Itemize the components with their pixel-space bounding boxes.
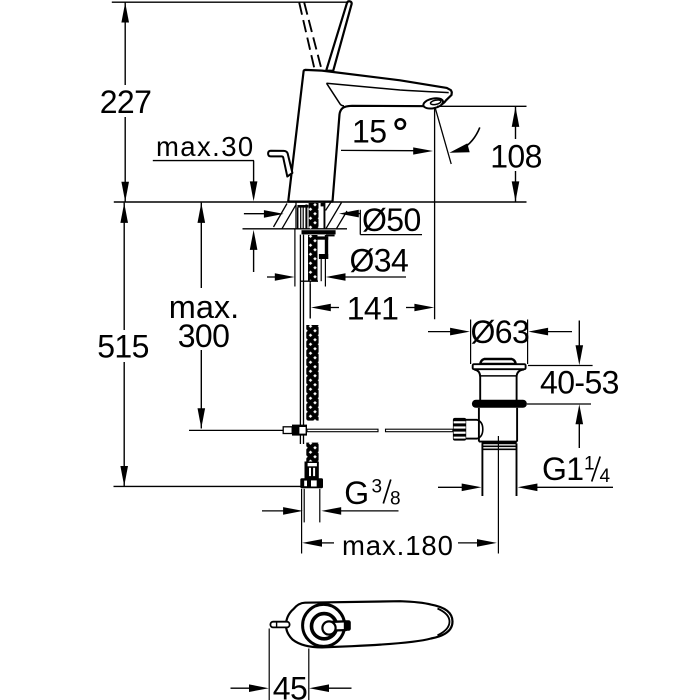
waste lower body (478, 408, 480, 442)
waste upper body (480, 375, 516, 377)
svg-text:40-53: 40-53 (540, 365, 619, 401)
svg-text:Ø34: Ø34 (350, 243, 409, 279)
waste tailpipe (481, 443, 483, 496)
waste tailpipe rings (482, 442, 517, 444)
dimension Ø34 (294, 230, 296, 287)
lever right end inner arc (438, 609, 450, 636)
hose nut G3/8 (300, 478, 323, 488)
dashed handle (alternate position) (299, 3, 314, 69)
hose connector ribbed (305, 462, 319, 479)
svg-text:G1: G1 (542, 451, 584, 487)
svg-text:515: 515 (97, 329, 149, 365)
top reference line (handle tip level) (112, 1, 349, 3)
spout inner diagonal (327, 83, 345, 106)
dimension 108 vertical line (515, 107, 517, 139)
shank hole edges (295, 203, 297, 229)
svg-text:max.180: max.180 (342, 530, 454, 561)
deck top line (114, 201, 527, 203)
mounting washer (302, 230, 336, 234)
svg-text:1: 1 (584, 454, 595, 475)
svg-text:max.30: max.30 (156, 131, 255, 162)
waste side port (466, 419, 478, 421)
svg-text:Ø50: Ø50 (362, 202, 421, 238)
spout outlet reference line (437, 105, 527, 107)
spout aerator (422, 97, 444, 111)
svg-text:141: 141 (347, 291, 399, 327)
spout inner top edge (327, 83, 449, 92)
waste knurled knob (453, 418, 466, 441)
dimension 45 extension lines (268, 629, 270, 700)
lever cap inner circle (322, 621, 335, 634)
rod tee fitting (283, 427, 292, 434)
lever stub (331, 621, 348, 630)
dimension 45 arrows (231, 687, 252, 689)
pop-up rod left segment (307, 429, 378, 432)
515 bottom reference line (114, 485, 303, 487)
deck cross-section bottom line (243, 228, 348, 230)
hose double line below deck (299, 235, 301, 444)
deck hatching (274, 204, 288, 228)
svg-text:G: G (344, 475, 368, 511)
braided hose lower section (306, 443, 318, 462)
max.300 bottom reference line (189, 429, 284, 431)
15 degree leader line with arrow (341, 149, 414, 151)
dimension max.180 (302, 539, 322, 547)
lever cap middle circle (312, 614, 337, 639)
waste O-ring (472, 400, 527, 408)
15 degree slant line (435, 108, 451, 165)
pop-up waste: Ø63 extension lines (470, 320, 472, 365)
lever cap outer circle (303, 604, 345, 646)
40-53 reference lines (528, 365, 593, 367)
dimension max.300 vertical line (200, 203, 202, 288)
max.180 extension line (301, 489, 303, 554)
mounting bracket (317, 236, 328, 239)
G3/8 extension lines (303, 489, 305, 523)
svg-text:Ø63: Ø63 (471, 314, 530, 350)
waste flange (473, 364, 526, 369)
threaded shank below deck (308, 235, 318, 282)
dimension G1 1/4 (438, 486, 464, 488)
dimension Ø63 arrows (428, 331, 452, 333)
svg-text:45: 45 (273, 671, 307, 700)
waste cap (480, 359, 515, 364)
dimension G3/8 arrows (262, 510, 285, 512)
hose centerline break (309, 281, 311, 318)
braided hose middle section (306, 325, 318, 421)
vertical extension line from spout to 141 (434, 107, 436, 319)
dimension 141 (309, 284, 311, 319)
faucet lever handle (solid) (326, 1, 351, 71)
svg-text:227: 227 (100, 84, 152, 120)
pop-up rod right segment (386, 429, 453, 432)
svg-text:300: 300 (178, 318, 230, 354)
lever left pin (270, 622, 289, 628)
waste centerline (497, 436, 499, 554)
side lever knob on body (268, 151, 292, 177)
dimension 40-53 arrows (578, 321, 580, 349)
svg-text:4: 4 (600, 466, 611, 487)
svg-text:15: 15 (352, 113, 386, 149)
dimension 515 vertical line (123, 203, 125, 330)
waste neck curves (474, 370, 480, 377)
dimension 227 vertical line (124, 2, 126, 85)
svg-text:108: 108 (490, 138, 542, 174)
faucet body and spout outline (288, 70, 452, 202)
rod guide line (320, 259, 322, 281)
threaded shank above deck (309, 203, 319, 229)
shank ribbed rod above deck (297, 205, 308, 208)
dimension Ø50 leader (244, 213, 267, 215)
bottom view: lever handle outline (286, 601, 453, 647)
svg-text:8: 8 (390, 489, 401, 510)
curved arrow (462, 127, 480, 149)
small black block top right of hole (321, 203, 324, 207)
svg-text:3: 3 (372, 476, 383, 497)
